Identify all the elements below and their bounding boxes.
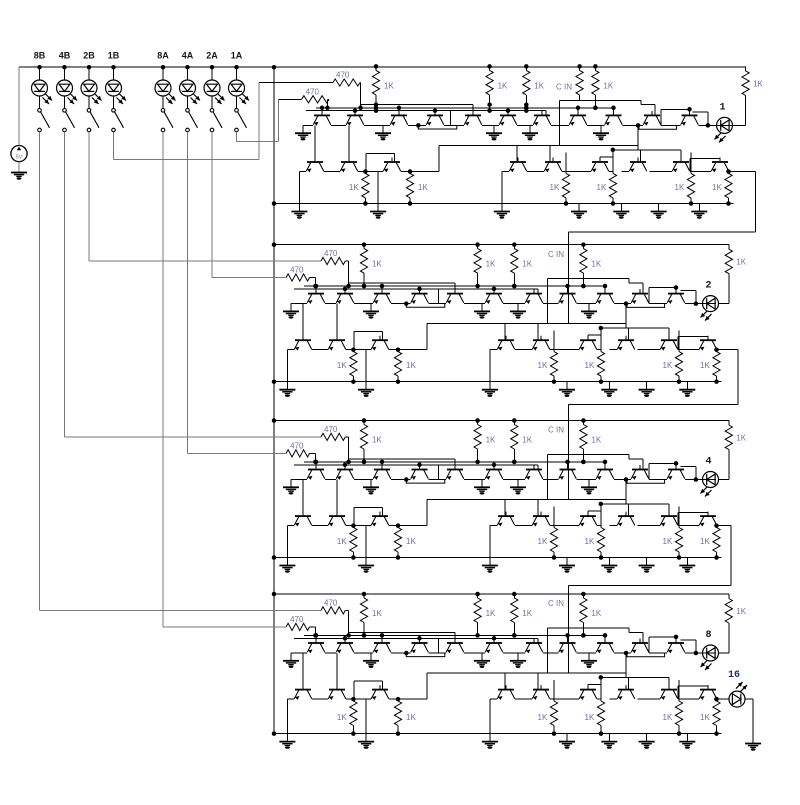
wire 2A column — [211, 132, 213, 278]
resistor 1K row2 stage3 — [350, 528, 357, 553]
wire row2 — [678, 525, 699, 527]
resistor 1K row2 stage2 — [550, 352, 557, 377]
transistor Q414 row2 — [371, 685, 389, 700]
resistor 1K row2 stage3 — [675, 528, 682, 553]
wire base harness L2 — [304, 285, 605, 287]
svg-text:1K: 1K — [585, 537, 595, 546]
wire row1 — [685, 652, 716, 654]
wire — [360, 83, 362, 108]
wire to ground — [365, 526, 367, 566]
svg-text:8A: 8A — [157, 51, 169, 61]
wire to ground — [302, 125, 304, 133]
wire — [678, 685, 708, 687]
wire — [39, 96, 41, 109]
wire row2 — [398, 698, 427, 700]
wire — [327, 98, 329, 100]
transistor Q31 row1 — [307, 465, 325, 480]
wire riser — [437, 289, 439, 304]
wire — [162, 96, 164, 109]
wire base drop — [381, 635, 383, 643]
wire — [354, 507, 383, 509]
junction — [506, 108, 511, 113]
wire base drop — [516, 145, 518, 162]
wire base vertical B — [336, 304, 338, 341]
svg-text:1K: 1K — [736, 258, 746, 267]
ground — [295, 132, 311, 134]
junction — [380, 633, 385, 638]
svg-text:1K: 1K — [585, 361, 595, 370]
wire — [728, 421, 730, 426]
wire row2 — [527, 171, 544, 173]
wire — [113, 96, 115, 109]
wire row1 — [543, 303, 559, 305]
wire to ground — [286, 350, 288, 390]
wire — [678, 336, 708, 338]
wire 1B riser — [258, 83, 260, 160]
wire row1 — [464, 479, 485, 481]
svg-text:1K: 1K — [603, 81, 613, 90]
wire — [314, 453, 316, 462]
junction sum tap B — [624, 301, 629, 306]
wire base drop — [680, 150, 682, 162]
junction — [272, 201, 277, 206]
ground — [679, 389, 695, 391]
wire base harness L7 — [601, 503, 669, 505]
junction — [552, 555, 557, 560]
wire LED to 1K — [728, 450, 730, 480]
wire riser — [426, 499, 428, 525]
ground — [279, 565, 295, 567]
junction sum tap B — [624, 651, 629, 656]
node 1B bus tap — [111, 65, 116, 70]
wire base drop — [599, 157, 601, 162]
junction — [362, 284, 367, 289]
wire — [600, 156, 613, 158]
transistor Q11 row1 — [313, 111, 331, 126]
wire — [211, 67, 213, 80]
transistor Q417 row2 — [579, 685, 597, 700]
wire base drop — [493, 638, 495, 643]
wire to ground — [377, 172, 379, 212]
wire 8B column — [39, 132, 41, 611]
resistor 1K row2 stage2 — [350, 352, 357, 377]
wire carry across — [569, 231, 756, 233]
junction — [433, 108, 438, 113]
svg-text:470: 470 — [290, 441, 304, 450]
wire base harness L3 — [294, 464, 538, 466]
resistor 1K row2 stage3 — [713, 528, 720, 553]
transistor Q46 row1 — [485, 639, 503, 654]
svg-text:1K: 1K — [675, 183, 685, 192]
wire stage2 +5V rail — [274, 244, 729, 246]
wire to ground — [658, 204, 660, 212]
wire to ground — [290, 480, 292, 488]
wire — [345, 609, 348, 611]
wire row1 — [354, 303, 373, 305]
wire base drop — [549, 145, 551, 162]
svg-text:4B: 4B — [59, 51, 71, 61]
wire row2 — [562, 171, 591, 173]
junction — [475, 633, 480, 638]
wire row1 — [649, 479, 667, 481]
wire 4B column — [64, 132, 66, 437]
wire to ground — [489, 350, 491, 390]
wire — [745, 66, 747, 71]
junction — [320, 106, 325, 111]
wire row1 — [391, 652, 411, 654]
svg-text:1K: 1K — [372, 260, 382, 269]
wire base drop — [454, 632, 456, 643]
LED output 16 — [729, 691, 745, 707]
LED output 2 — [703, 296, 719, 312]
wire row2 — [389, 698, 398, 700]
junction — [362, 460, 367, 465]
wire base vertical A — [302, 653, 304, 690]
junction — [397, 106, 402, 111]
wire base drop — [668, 677, 670, 689]
junction — [524, 106, 529, 111]
junction — [687, 107, 692, 112]
transistor Q41 row1 — [307, 639, 325, 654]
resistor 1K LED stage3 — [725, 425, 732, 450]
transistor Q38 row1 — [559, 465, 577, 480]
resistor 1K pullup stage2 — [511, 249, 518, 274]
wire row1 — [325, 479, 336, 481]
junction — [475, 284, 480, 289]
wire — [649, 462, 676, 464]
transistor Q116 row2 — [544, 158, 562, 173]
wire carry across — [569, 584, 732, 586]
wire base drop — [344, 638, 346, 643]
transistor Q319 row2 — [660, 512, 678, 527]
junction — [346, 460, 351, 465]
junction — [599, 731, 604, 736]
wire base harness L1 — [361, 104, 473, 106]
wire to ground — [290, 653, 292, 661]
wire carry down — [755, 172, 757, 233]
wire LED to 1K — [728, 623, 730, 653]
junction LED tap — [706, 123, 711, 128]
wire row1 — [661, 124, 681, 126]
wire to ground — [493, 125, 495, 133]
wire base drop — [419, 289, 421, 294]
wire row2 — [638, 698, 661, 700]
junction — [524, 108, 529, 113]
wire carry out — [726, 525, 731, 527]
transistor Q22 row1 — [336, 289, 354, 304]
wire jog — [680, 289, 696, 291]
node 2A bus tap — [210, 65, 215, 70]
ground — [522, 132, 538, 134]
wire — [310, 626, 316, 628]
wire — [187, 96, 189, 109]
wire base drop — [707, 513, 709, 517]
junction — [714, 555, 719, 560]
resistor 1K row2 stage4 — [675, 701, 682, 726]
svg-text:470: 470 — [306, 87, 320, 96]
wire row2 — [287, 349, 294, 351]
wire 1B column — [113, 132, 115, 160]
wire to ground — [290, 304, 292, 312]
transistor Q39 row1 — [596, 465, 614, 480]
transistor Q216 row2 — [532, 336, 550, 351]
wire to ground — [286, 699, 288, 742]
svg-text:1K: 1K — [406, 537, 416, 546]
ground — [593, 132, 609, 134]
wire 4A column — [187, 132, 189, 454]
wire base drop — [567, 462, 569, 470]
junction — [362, 633, 367, 638]
wire riser — [677, 337, 679, 350]
svg-text:1K: 1K — [700, 537, 710, 546]
wire row2 — [597, 349, 601, 351]
wire to ground — [481, 480, 483, 488]
wire row2 — [550, 525, 579, 527]
svg-text:1K: 1K — [406, 713, 416, 722]
LED 4A — [180, 80, 196, 96]
wire 1A column — [236, 132, 238, 142]
wire — [310, 277, 316, 279]
wire row1 — [577, 652, 597, 654]
junction — [363, 169, 368, 174]
wire row1 — [291, 303, 307, 305]
wire row2 — [690, 171, 711, 173]
junction — [351, 347, 356, 352]
wire — [64, 96, 66, 109]
wire riser — [438, 145, 440, 171]
wire base drop — [419, 465, 421, 470]
junction — [475, 460, 480, 465]
junction — [325, 106, 330, 111]
wire riser — [660, 109, 662, 125]
wire base drop — [628, 677, 630, 689]
junction — [714, 379, 719, 384]
transistor Q411 row1 — [667, 639, 685, 654]
wire riser — [677, 686, 679, 699]
wire base harness L2 — [304, 461, 605, 463]
wire — [187, 67, 189, 80]
transistor Q311 row1 — [667, 465, 685, 480]
ground — [651, 211, 667, 213]
wire row1 — [325, 652, 336, 654]
junction — [362, 418, 367, 423]
junction — [343, 463, 348, 468]
junction — [351, 523, 356, 528]
junction — [272, 379, 277, 384]
transistor Q318 row2 — [617, 512, 635, 527]
svg-text:1K: 1K — [337, 361, 347, 370]
resistor 1K LED stage1 — [742, 71, 749, 96]
resistor 1K pullup stage4 — [474, 598, 481, 623]
wire row2 — [502, 171, 509, 173]
ground — [11, 172, 27, 174]
junction — [313, 460, 318, 465]
transistor Q317 row2 — [579, 512, 597, 527]
wire base harness L0 — [548, 278, 630, 280]
wire row2 — [597, 525, 601, 527]
wire base drop — [472, 105, 474, 116]
wire base drop — [719, 158, 721, 162]
wire row1 — [303, 124, 313, 126]
wire row1 — [649, 303, 667, 305]
resistor 1K pullup stage1 — [486, 70, 493, 95]
wire base harness L2 — [304, 634, 605, 636]
wire base drop — [315, 286, 317, 294]
junction — [362, 242, 367, 247]
resistor 1K pullup stage1 — [592, 70, 599, 95]
wire 8A column — [162, 132, 164, 627]
wire base drop — [587, 685, 589, 690]
wire — [359, 82, 362, 84]
switch 4B — [63, 109, 75, 132]
wire row2 — [729, 171, 738, 173]
wire row2 — [621, 171, 629, 173]
LED 4B — [57, 80, 73, 96]
junction — [396, 555, 401, 560]
wire row2 — [490, 349, 497, 351]
svg-text:1: 1 — [719, 102, 725, 113]
junction — [674, 635, 679, 640]
transistor Q14 row1 — [426, 111, 444, 126]
resistor 470 B-input stage2 — [321, 257, 345, 264]
svg-text:470: 470 — [290, 266, 304, 275]
junction — [552, 379, 557, 384]
wire row1 — [444, 124, 464, 126]
ground — [639, 389, 655, 391]
junction — [362, 592, 367, 597]
junction sum tap A — [404, 477, 409, 482]
wire 2B run — [89, 260, 321, 262]
wire jog — [639, 125, 677, 129]
switch 8A — [161, 109, 173, 132]
svg-text:1K: 1K — [736, 607, 746, 616]
svg-text:1K: 1K — [538, 361, 548, 370]
svg-text:4A: 4A — [182, 51, 194, 61]
transistor Q26 row1 — [485, 289, 503, 304]
transistor Q49 row1 — [596, 639, 614, 654]
ground — [494, 211, 510, 213]
wire — [236, 67, 238, 80]
wire to ground — [600, 125, 602, 133]
junction — [396, 379, 401, 384]
wire to ground — [646, 382, 648, 390]
resistor 1K pullup stage4 — [580, 598, 587, 623]
ground — [375, 132, 391, 134]
wire row2 — [678, 698, 699, 700]
wire riser — [648, 637, 650, 653]
junction — [714, 523, 719, 528]
junction — [599, 675, 604, 680]
svg-text:2B: 2B — [83, 51, 95, 61]
wire row2 — [515, 525, 532, 527]
wire to ground — [588, 653, 590, 661]
wire — [236, 96, 238, 109]
wire to ground — [489, 526, 491, 566]
wire stage2 ground rail — [274, 381, 721, 383]
wire row2 — [324, 171, 340, 173]
junction — [396, 523, 401, 528]
resistor 470 B-input stage4 — [321, 607, 345, 614]
svg-text:16: 16 — [728, 670, 740, 681]
wire — [64, 67, 66, 80]
ground — [358, 741, 374, 743]
svg-text:1K: 1K — [538, 537, 548, 546]
switch 1B — [112, 109, 124, 132]
wire row1 — [587, 124, 605, 126]
wire LED anode — [719, 479, 729, 481]
wire base drop — [668, 328, 670, 340]
junction — [689, 201, 694, 206]
wire row2 — [490, 698, 497, 700]
wire base drop — [504, 324, 506, 341]
wire — [366, 153, 395, 155]
wire riser — [677, 513, 679, 526]
wire — [588, 334, 601, 336]
wire to ground — [646, 558, 648, 566]
junction — [492, 636, 497, 641]
junction — [380, 284, 385, 289]
wire jog — [692, 111, 708, 113]
wire to ground — [588, 480, 590, 488]
junction — [581, 284, 586, 289]
wire base drop — [344, 289, 346, 294]
junction — [603, 284, 608, 289]
junction — [512, 460, 517, 465]
wire base drop — [394, 154, 396, 163]
node 8B bus tap — [37, 65, 42, 70]
wire jog — [406, 480, 445, 484]
wire — [600, 328, 602, 335]
wire carry out — [738, 171, 756, 173]
ground — [559, 389, 575, 391]
junction — [674, 285, 679, 290]
LED 8A — [155, 80, 171, 96]
ground — [559, 565, 575, 567]
junction — [343, 636, 348, 641]
svg-text:1K: 1K — [736, 434, 746, 443]
wire to ground — [529, 125, 531, 133]
ground — [639, 565, 655, 567]
junction — [552, 731, 557, 736]
wire — [353, 332, 355, 350]
wire row2 — [287, 698, 294, 700]
resistor 1K row2 stage4 — [350, 701, 357, 726]
wire row2 — [550, 698, 579, 700]
wire — [745, 698, 753, 700]
switch 1A — [235, 109, 247, 132]
transistor Q15 row1 — [464, 111, 482, 126]
resistor 1K pullup stage3 — [511, 425, 518, 450]
ground — [370, 211, 386, 213]
transistor Q213 row2 — [328, 336, 346, 351]
wire row2 — [401, 171, 410, 173]
wire row1 — [354, 479, 373, 481]
junction — [512, 284, 517, 289]
node 2B bus tap — [87, 65, 92, 70]
junction — [611, 201, 616, 206]
junction — [512, 284, 517, 289]
transistor Q118 row2 — [629, 158, 647, 173]
junction — [581, 633, 586, 638]
resistor 1K pullup stage2 — [360, 249, 367, 274]
junction — [611, 106, 616, 111]
LED 2B — [81, 80, 97, 96]
wire row2 — [515, 349, 532, 351]
wire base harness L7 — [601, 327, 669, 329]
wire riser — [426, 324, 428, 350]
junction — [475, 242, 480, 247]
wire to ground — [608, 734, 610, 742]
